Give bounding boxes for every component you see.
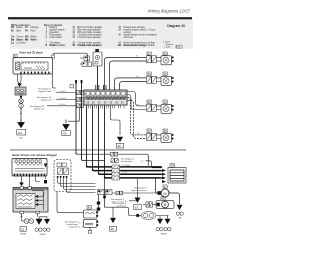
entry arrows (162, 169, 166, 172)
wire from resistor box bottom-left (22, 214, 25, 221)
vertical continuation to y207 wire (104, 178, 106, 207)
relay cluster mid right (98, 190, 113, 195)
label on y160 row (121, 159, 135, 164)
svg-text:(→: (→ (53, 98, 56, 101)
svg-text:with fuse: with fuse (124, 36, 134, 39)
heater rows to right components (76, 153, 148, 166)
svg-text:0.5 Sw/Ws: 0.5 Sw/Ws (58, 98, 66, 100)
wire aerial box down (20, 95, 22, 99)
vertical from defogger box to fuse resistor (57, 192, 84, 213)
wires resistor box bottom right to arrows (37, 214, 39, 217)
svg-text:0.5 Br/Ge: 0.5 Br/Ge (58, 103, 65, 106)
svg-text:Radio and CD player: Radio and CD player (20, 51, 44, 55)
ignition feed cluster (80, 56, 92, 67)
svg-text:Blue: Blue (17, 29, 22, 32)
wire y207 row (105, 207, 142, 215)
svg-text:GB/GB: GB/GB (161, 233, 168, 235)
CD pin number row (87, 101, 123, 104)
M2 left wire with slash connector (143, 204, 157, 206)
speaker (161, 56, 172, 65)
speaker row C (146, 100, 174, 114)
svg-text:— Bulb: — Bulb (163, 46, 171, 48)
inline connector circles (19, 99, 24, 104)
svg-text:engine cooling fan: engine cooling fan (131, 190, 147, 192)
riser row B wires (115, 78, 147, 90)
svg-text:(→: (→ (141, 160, 144, 163)
earth arrow E4 (18, 119, 24, 128)
heater resistor pack box (gray) (13, 188, 48, 213)
connector slash on row1 wire (111, 152, 114, 156)
vertical x98 with pins (98, 195, 100, 212)
key col1 (36, 26, 66, 47)
svg-text:Fuse holder: Fuse holder (50, 36, 63, 39)
see diagram label bottom left (65, 222, 79, 229)
connector slash on wire (116, 191, 119, 195)
speaker row A (146, 52, 174, 65)
label above y207 wire (113, 203, 127, 208)
connector circle pair bottom-left (24, 219, 29, 224)
radio label box 6 (14, 54, 18, 57)
speaker row B (146, 72, 174, 86)
wires (146, 57, 161, 61)
svg-text:(→: (→ (53, 89, 56, 92)
wire down to earth arrow (20, 108, 22, 119)
internal feed arrows and loop (35, 195, 38, 198)
svg-text:Diagram 10: Diagram 10 (167, 24, 185, 28)
svg-text:Pink: Pink (31, 29, 36, 32)
CD hatched strip (86, 96, 127, 99)
recirc flap motor M2 (156, 197, 174, 209)
speaker row D (146, 129, 174, 143)
svg-text:E7: E7 (135, 206, 139, 210)
earth drop arrow mid right (137, 179, 139, 198)
E box below (20, 227, 27, 232)
key col3 (117, 26, 157, 47)
svg-text:relay plate: relay plate (69, 226, 79, 229)
arrow into aerial box (17, 84, 22, 87)
svg-text:0.5 Sw/Ge: 0.5 Sw/Ge (58, 91, 66, 93)
radio top right pin (52, 55, 55, 58)
aerial connector box (15, 87, 26, 95)
svg-text:interior lights: interior lights (121, 160, 132, 163)
CD right fan wires to rows C and D (127, 92, 146, 106)
svg-text:display unit: display unit (34, 108, 44, 111)
legend panel (10, 20, 193, 49)
label box 30 (163, 52, 167, 55)
riser row A wires (105, 57, 147, 90)
earth box E4 (17, 130, 26, 136)
inner resistor block (16, 194, 35, 209)
wires radio bottom-left to aerial box (18, 74, 22, 84)
oval connector pair (141, 212, 156, 220)
drops from switch boxes (22, 176, 96, 193)
mid earth arrow (112, 207, 114, 218)
terminal pins atop long verticals (75, 80, 77, 83)
thick feed rows to heated rear window (87, 166, 162, 178)
svg-text:Lt Green: Lt Green (17, 42, 27, 45)
label see diagram (radio feed) (30, 89, 52, 111)
svg-text:E2: E2 (21, 227, 25, 231)
wire arc radio to aerial amp (53, 53, 87, 62)
radio internals (16, 62, 49, 70)
svg-text:Aerial amplifier: Aerial amplifier (50, 44, 66, 47)
label box 31 (147, 52, 151, 55)
twin earth arrows right bottom (156, 216, 168, 219)
radio pins (20, 72, 49, 74)
svg-text:Yellow: Yellow (31, 39, 38, 42)
connector circles row (35, 228, 50, 231)
series resistance with fuse cluster (84, 206, 99, 234)
CD player box U7 (84, 90, 127, 105)
svg-text:2.5 Sw/Ws: 2.5 Sw/Ws (122, 165, 130, 167)
CD cells row (86, 92, 126, 96)
wire row into CD left 2 (56, 99, 76, 101)
svg-text:Wiring diagrams 12•27: Wiring diagrams 12•27 (148, 8, 191, 13)
svg-text:110: 110 (117, 44, 121, 47)
bottom pin tabs (20, 211, 23, 214)
label and wire y201 (111, 199, 125, 204)
radio unit box U6 (13, 58, 53, 75)
svg-text:E5: E5 (63, 131, 67, 135)
wire radio right edge down and right (53, 74, 57, 88)
earth arrow E5 (63, 120, 69, 130)
connector pair (147, 56, 152, 63)
connector slashes left of CD box (77, 91, 84, 108)
motor wire label (131, 188, 148, 192)
svg-text:GB/GB: GB/GB (40, 234, 47, 236)
svg-text:display unit: display unit (41, 99, 51, 102)
short drop with elbow to earth arrow (111, 105, 121, 135)
blower motor M1 (158, 185, 170, 197)
heated rear window element (162, 164, 186, 184)
svg-text:(→: (→ (79, 226, 82, 229)
switch wiper arrow in box1 (44, 164, 47, 168)
earth drop from connector (68, 108, 80, 122)
wire row into CD left 3 (47, 105, 76, 107)
M1 right wire to earth arrow (169, 193, 180, 204)
wire row into CD left 1 (56, 92, 76, 94)
black pin on drop (44, 180, 47, 183)
svg-text:E6: E6 (111, 227, 115, 231)
key col2 (72, 26, 103, 47)
connector slash on y160.5 wire (111, 159, 114, 163)
svg-text:(→: (→ (79, 222, 82, 225)
defogger switch box (dashed) (54, 160, 71, 192)
row4 branch down to motor (156, 178, 158, 193)
svg-text:E4: E4 (18, 131, 22, 135)
aerial amplifier U8 (93, 49, 102, 66)
svg-text:Amplifier with speakers: Amplifier with speakers (78, 44, 103, 47)
wire relay right (112, 192, 158, 194)
svg-text:Heater blower, rear window def: Heater blower, rear window defogger (12, 153, 58, 157)
wire colours rows (11, 26, 39, 45)
symbol mini legend (163, 41, 182, 49)
long verticals below CD box (76, 80, 105, 178)
arrow into resistor box (19, 183, 24, 187)
svg-text:GB/GB: GB/GB (20, 234, 27, 236)
wire aerial amp down to CD box (97, 66, 99, 90)
twin earth arrows (36, 217, 42, 224)
wire code marks heater (122, 165, 130, 174)
hatched header strip (13, 188, 47, 190)
pin box on oval feed (136, 214, 139, 217)
svg-text:Rear window defogger switch: Rear window defogger switch (124, 44, 156, 47)
svg-text:Bl: Bl (11, 29, 14, 32)
svg-text:E6: E6 (118, 144, 122, 148)
section divider rule (10, 149, 186, 152)
CD box top pin stubs (96, 85, 106, 90)
top pin tabs (20, 187, 23, 190)
wire code marks (58, 55, 140, 136)
heater blower switch box (12, 159, 47, 177)
white slash gaps on thick rows (112, 165, 120, 180)
header rule (8, 17, 192, 19)
svg-text:M: M (163, 192, 166, 196)
svg-text:2.5 Br: 2.5 Br (122, 171, 127, 174)
svg-text:M: M (164, 203, 167, 207)
CD box bottom pin stubs (89, 105, 125, 108)
svg-text:supply to radio: supply to radio (38, 90, 52, 93)
svg-text:LH front bass speaker: LH front bass speaker (78, 36, 102, 39)
